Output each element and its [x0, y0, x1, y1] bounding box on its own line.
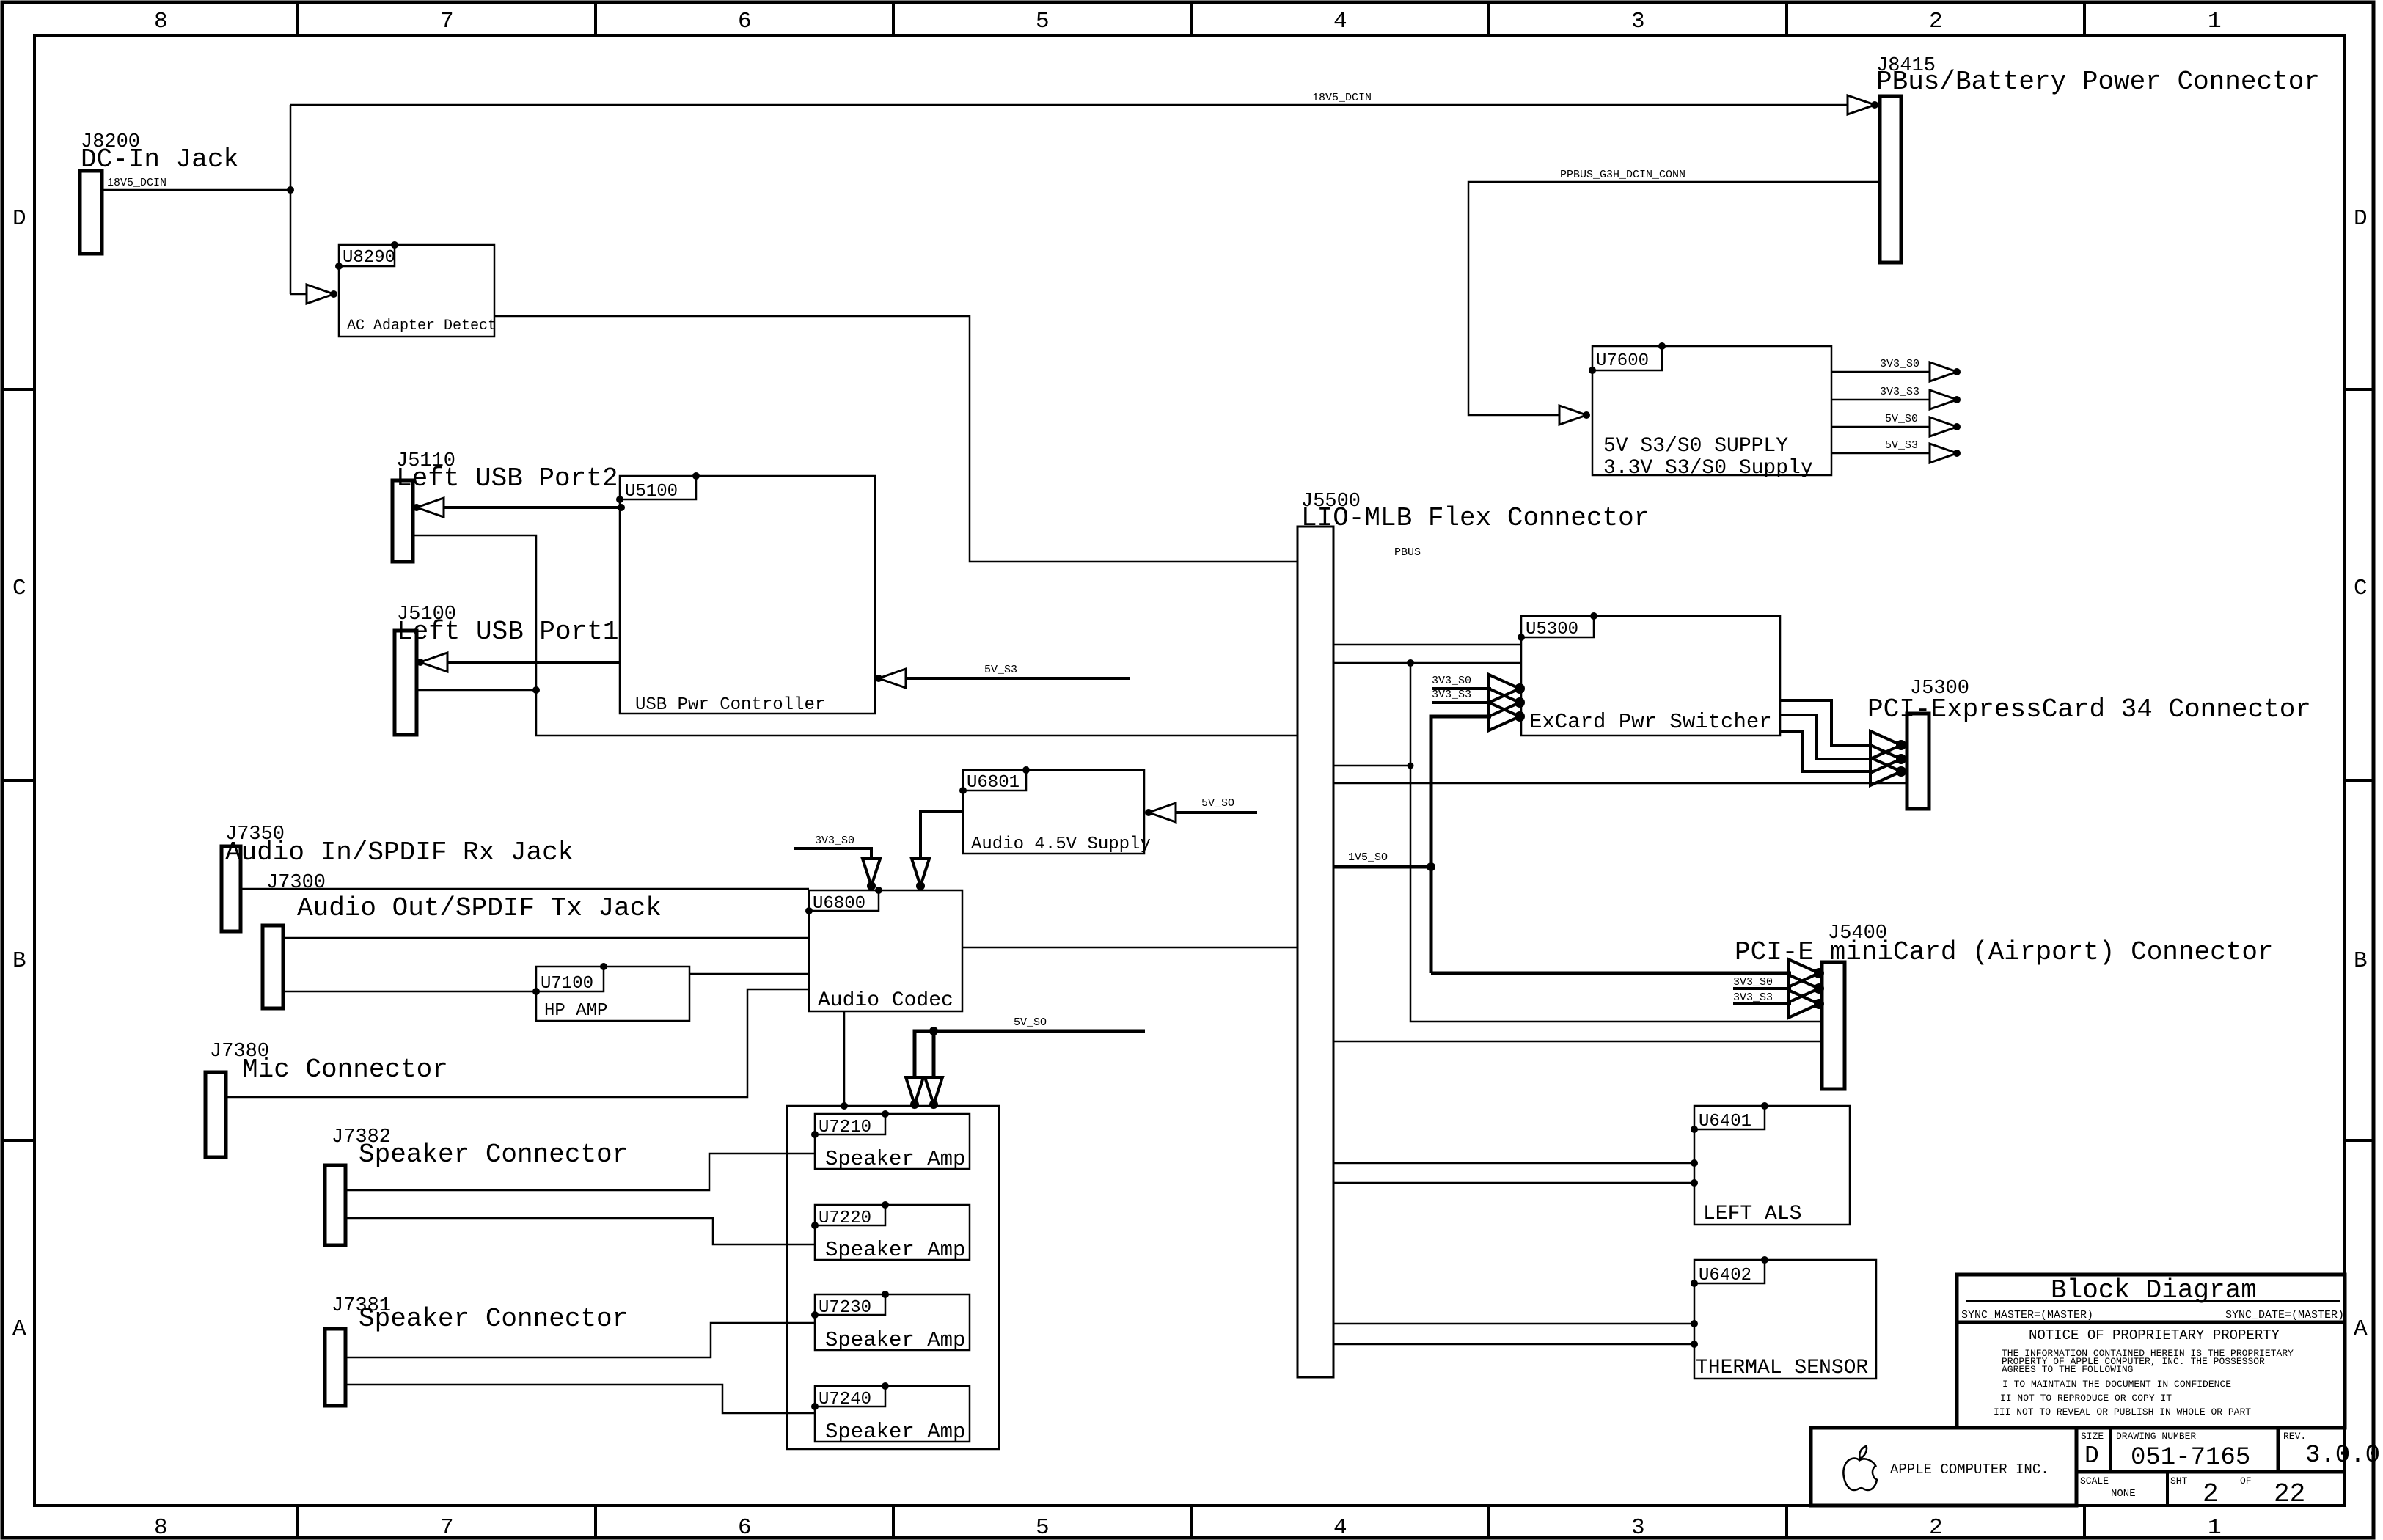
svg-text:2: 2	[2203, 1479, 2219, 1509]
svg-text:AC Adapter Detect: AC Adapter Detect	[347, 318, 497, 334]
connector J7350 Audio In/SPDIF Rx Jack	[222, 824, 574, 931]
svg-text:7: 7	[440, 1515, 454, 1540]
svg-text:4: 4	[1333, 1515, 1347, 1540]
svg-text:LIO-MLB Flex Connector: LIO-MLB Flex Connector	[1301, 503, 1650, 533]
wire 18V5_DCIN long run to J8415	[290, 104, 1847, 106]
svg-text:PBus/Battery Power Connector: PBus/Battery Power Connector	[1876, 67, 2320, 97]
arrow 3V3_S3 into J5400	[1788, 990, 1819, 1018]
svg-text:22: 22	[2274, 1479, 2305, 1509]
svg-text:3V3_S3: 3V3_S3	[1733, 991, 1773, 1004]
arrow into J5100	[420, 653, 447, 672]
svg-text:Speaker Amp: Speaker Amp	[825, 1147, 965, 1171]
svg-text:APPLE COMPUTER INC.: APPLE COMPUTER INC.	[1890, 1462, 2049, 1478]
svg-text:I TO MAINTAIN THE DOCUMENT IN: I TO MAINTAIN THE DOCUMENT IN CONFIDENCE	[2002, 1379, 2231, 1390]
connector J7381 Speaker Connector	[325, 1295, 628, 1406]
arrow out 5V_S3	[1930, 444, 1957, 463]
wire J7382 to U7220	[345, 1218, 815, 1244]
wire J5500 to U5300 pin2	[1333, 662, 1521, 664]
svg-text:U5300: U5300	[1526, 620, 1578, 639]
svg-text:Speaker Connector: Speaker Connector	[359, 1140, 628, 1170]
wire J7381 to U7240	[345, 1385, 815, 1413]
svg-text:051-7165: 051-7165	[2131, 1444, 2250, 1472]
connector J5300 PCI-ExpressCard 34 Connector	[1867, 678, 2311, 809]
svg-text:Speaker Amp: Speaker Amp	[825, 1328, 965, 1352]
svg-text:2: 2	[1929, 9, 1943, 34]
svg-text:NONE: NONE	[2111, 1488, 2136, 1500]
svg-text:DC-In Jack: DC-In Jack	[81, 144, 239, 175]
svg-text:Audio Codec: Audio Codec	[818, 989, 953, 1012]
wire 18V5_DCIN from J8200 to junction	[102, 105, 290, 294]
wire 3V3_S0 into U6800	[794, 848, 871, 859]
block U8290 AC Adapter Detect	[335, 241, 497, 337]
wire J5110 data to J5500	[413, 535, 1297, 736]
svg-text:U5100: U5100	[625, 482, 678, 502]
svg-text:Left USB Port1: Left USB Port1	[397, 617, 618, 647]
svg-text:HP AMP: HP AMP	[544, 1001, 607, 1021]
wire U7600 out 3V3_S0	[1831, 371, 1930, 373]
wire 1V5_S0 to J5400	[1431, 972, 1791, 975]
arrow 1V5_S0 into J5400	[1788, 959, 1819, 987]
svg-text:SIZE: SIZE	[2081, 1431, 2104, 1442]
wire USB power U5100 to J5110	[444, 506, 620, 509]
block U7600 5V/3.3V supply	[1589, 342, 1831, 480]
svg-text:5V_S3: 5V_S3	[984, 664, 1017, 676]
block U7210 Speaker Amp	[811, 1110, 970, 1171]
wire J5500 to U6402 pin1	[1333, 1323, 1694, 1325]
svg-text:J7300: J7300	[266, 872, 326, 894]
svg-text:18V5_DCIN: 18V5_DCIN	[107, 177, 166, 189]
svg-text:U7600: U7600	[1596, 351, 1649, 371]
svg-text:2: 2	[1929, 1515, 1943, 1540]
connector J5500 LIO-MLB Flex Connector	[1297, 491, 1650, 1377]
svg-text:NOTICE OF PROPRIETARY PROPERTY: NOTICE OF PROPRIETARY PROPERTY	[2029, 1327, 2280, 1343]
block U6801 Audio 4.5V Supply	[959, 766, 1151, 854]
svg-text:3V3_S3: 3V3_S3	[1880, 386, 1919, 398]
arrow U5300 out3 into J5300	[1870, 758, 1901, 785]
svg-text:3V3_S0: 3V3_S0	[1733, 976, 1773, 989]
svg-text:PCI-ExpressCard 34 Connector: PCI-ExpressCard 34 Connector	[1867, 694, 2311, 725]
wire U7600 out 5V_S3	[1831, 452, 1930, 455]
svg-text:1: 1	[2208, 1515, 2222, 1540]
svg-text:Speaker Amp: Speaker Amp	[825, 1238, 965, 1262]
junction PCIE branch	[1407, 659, 1414, 667]
svg-text:3V3_S3: 3V3_S3	[1432, 689, 1471, 701]
wire U7100 to U6800	[689, 973, 809, 975]
svg-text:4: 4	[1333, 9, 1347, 34]
connector J5400 PCI-E miniCard (Airport) Connector	[1735, 923, 2274, 1089]
svg-text:U7210: U7210	[819, 1118, 871, 1137]
svg-text:C: C	[2354, 576, 2368, 601]
svg-text:Audio In/SPDIF Rx Jack: Audio In/SPDIF Rx Jack	[225, 837, 574, 868]
svg-text:LEFT ALS: LEFT ALS	[1703, 1203, 1801, 1225]
svg-text:Speaker Connector: Speaker Connector	[359, 1304, 628, 1334]
arrow 1V5_S0 into U5300	[1489, 703, 1520, 730]
svg-text:3.3V S3/S0 Supply: 3.3V S3/S0 Supply	[1603, 457, 1813, 480]
svg-text:A: A	[2354, 1316, 2368, 1342]
block U5100 USB Pwr Controller	[616, 472, 875, 715]
arrow out 3V3_S3	[1930, 390, 1957, 409]
wire J7300 to U6800	[283, 937, 809, 939]
block U7100 HP AMP	[532, 963, 689, 1021]
svg-text:PPBUS_G3H_DCIN_CONN: PPBUS_G3H_DCIN_CONN	[1560, 169, 1685, 181]
arrow into U7600	[1559, 406, 1586, 425]
arrow 3V3_S0 down into U6800	[863, 859, 880, 886]
svg-text:1: 1	[2208, 9, 2222, 34]
block U7240 Speaker Amp	[811, 1382, 970, 1444]
wire U6800 to J5500	[962, 947, 1297, 949]
svg-text:III NOT TO REVEAL OR PUBLISH I: III NOT TO REVEAL OR PUBLISH IN WHOLE OR…	[1994, 1407, 2251, 1418]
block U5300 ExCard Pwr Switcher	[1518, 612, 1780, 736]
svg-text:8: 8	[154, 1515, 168, 1540]
svg-text:DRAWING NUMBER: DRAWING NUMBER	[2116, 1431, 2196, 1442]
wire J5500 to J5400 pin	[1333, 1041, 1822, 1043]
arrow out 3V3_S0	[1930, 362, 1957, 381]
svg-text:U7230: U7230	[819, 1298, 871, 1318]
wire J5500 to U6401 pin2	[1333, 1182, 1694, 1184]
svg-text:5V_SO: 5V_SO	[1201, 797, 1234, 810]
wire 5V_S0 amp rail	[915, 1031, 1145, 1079]
svg-text:SCALE: SCALE	[2080, 1475, 2109, 1486]
wire U5300 out2 staircase	[1780, 715, 1873, 759]
wire J7381 to U7230	[345, 1323, 815, 1357]
svg-text:THERMAL SENSOR: THERMAL SENSOR	[1696, 1357, 1868, 1379]
svg-text:AGREES TO THE FOLLOWING: AGREES TO THE FOLLOWING	[2002, 1364, 2133, 1375]
arrow 3V3_S0 into U5300	[1489, 675, 1520, 703]
svg-text:6: 6	[738, 1515, 752, 1540]
svg-text:D: D	[12, 206, 26, 232]
svg-text:SYNC_DATE=(MASTER): SYNC_DATE=(MASTER)	[2225, 1309, 2344, 1321]
connector J5100 Left USB Port1	[395, 604, 618, 735]
svg-text:18V5_DCIN: 18V5_DCIN	[1312, 92, 1372, 104]
svg-text:5: 5	[1036, 1515, 1050, 1540]
block U6401 LEFT ALS	[1691, 1102, 1850, 1225]
svg-text:U6800: U6800	[813, 894, 865, 914]
svg-text:3V3_S0: 3V3_S0	[1432, 675, 1471, 687]
connector J8200 DC-In Jack	[80, 131, 239, 254]
svg-text:U6801: U6801	[967, 773, 1020, 793]
svg-text:Block Diagram: Block Diagram	[2051, 1275, 2257, 1305]
wire J5500 to J5300	[1333, 782, 1907, 785]
svg-text:5V_S3: 5V_S3	[1885, 439, 1918, 452]
wire J7350 to U6800	[241, 888, 809, 890]
svg-text:5V_S0: 5V_S0	[1885, 413, 1918, 425]
wire J5500 to U6401 pin1	[1333, 1162, 1694, 1165]
svg-text:ExCard Pwr Switcher: ExCard Pwr Switcher	[1529, 710, 1772, 734]
svg-text:B: B	[12, 948, 26, 974]
wire U7600 out 5V_S0	[1831, 426, 1930, 428]
svg-text:Speaker Amp: Speaker Amp	[825, 1420, 965, 1444]
wire U5300 out1 staircase	[1780, 700, 1873, 745]
block U6800 Audio Codec	[805, 887, 962, 1012]
wire J5500 to U6402 pin2	[1333, 1343, 1694, 1346]
wire 3V3_S3 into J5400	[1733, 1002, 1791, 1005]
svg-text:PBUS: PBUS	[1394, 546, 1421, 559]
svg-text:7: 7	[440, 9, 454, 34]
arrow out 5V_S0	[1930, 417, 1957, 436]
wire stub into U8290	[290, 293, 306, 296]
arrow 3V3_S0 into J5400	[1788, 975, 1819, 1002]
wire 3V3_S3 into U5300	[1432, 701, 1491, 704]
svg-text:D: D	[2354, 206, 2368, 232]
wire USB power U5100 to J5100	[447, 661, 620, 664]
svg-text:5V_SO: 5V_SO	[1014, 1016, 1047, 1029]
svg-text:D: D	[2084, 1442, 2099, 1470]
wire J7300 to U7100	[283, 991, 536, 993]
wire PCIE vertical branch to J5400	[1410, 663, 1822, 1022]
svg-text:B: B	[2354, 948, 2368, 974]
arrow U6801 down into U6800	[912, 859, 929, 886]
wire U6800 down to amp group	[843, 1011, 846, 1106]
svg-text:6: 6	[738, 9, 752, 34]
arrow 5V_S0 into U6801	[1149, 803, 1176, 822]
wire 3V3_S0 into J5400	[1733, 987, 1791, 990]
connector J7380 Mic Connector	[205, 1041, 448, 1157]
arrow 5V_S0 down into amp group 2	[925, 1077, 942, 1104]
group box speaker amps	[787, 1106, 999, 1449]
block U7230 Speaker Amp	[811, 1291, 970, 1352]
junction 18V5_DCIN	[287, 186, 294, 194]
svg-text:Left USB Port2: Left USB Port2	[396, 463, 618, 494]
svg-text:U7240: U7240	[819, 1390, 871, 1409]
svg-text:U7100: U7100	[541, 974, 593, 994]
svg-text:Audio 4.5V Supply: Audio 4.5V Supply	[971, 835, 1151, 854]
wire 1V5_S0 from J5500	[1333, 865, 1431, 869]
connector J5110 Left USB Port2	[392, 450, 618, 562]
svg-text:U8290: U8290	[343, 248, 395, 268]
svg-text:3: 3	[1631, 1515, 1645, 1540]
arrow 3V3_S3 into U5300	[1489, 689, 1520, 716]
svg-text:SHT: SHT	[2170, 1475, 2188, 1486]
arrow into J8415 pin	[1848, 95, 1875, 114]
connector J7300 Audio Out/SPDIF Tx Jack	[263, 872, 662, 1008]
wire PPBUS_G3H_DCIN_CONN from J8415 to U7600	[1468, 182, 1880, 415]
svg-text:C: C	[12, 576, 26, 601]
svg-text:A: A	[12, 1316, 26, 1342]
svg-text:Mic Connector: Mic Connector	[242, 1055, 448, 1085]
svg-text:REV.: REV.	[2283, 1431, 2306, 1442]
wire J5500 stub to PCIE branch	[1333, 765, 1410, 767]
svg-text:3V3_S0: 3V3_S0	[815, 835, 854, 847]
wire U5300 out3 staircase	[1780, 732, 1873, 771]
wire J7382 to U7210	[345, 1154, 815, 1190]
wire J5100 data	[417, 689, 536, 692]
connector J7382 Speaker Connector	[325, 1126, 628, 1245]
svg-text:II NOT TO REPRODUCE OR COPY IT: II NOT TO REPRODUCE OR COPY IT	[2000, 1393, 2172, 1404]
wire J7380 to U6800	[226, 989, 809, 1097]
arrow 5V_S3 into U5100	[879, 669, 906, 688]
wire U8290 output to J5500	[494, 316, 1297, 562]
junction 1V5_S0	[1427, 862, 1435, 871]
svg-text:3V3_S0: 3V3_S0	[1880, 358, 1919, 370]
arrow U5300 out2 into J5300	[1870, 745, 1901, 773]
arrow U5300 out1 into J5300	[1870, 731, 1901, 759]
wire U6801 output hook to U6800	[920, 811, 963, 859]
svg-text:3.0.0: 3.0.0	[2305, 1442, 2380, 1470]
svg-text:PCI-E miniCard (Airport) Conne: PCI-E miniCard (Airport) Connector	[1735, 937, 2274, 967]
arrow into J5110	[417, 498, 444, 517]
wire 3V3_S0 into U5300	[1432, 687, 1491, 690]
svg-text:U6402: U6402	[1699, 1266, 1751, 1286]
svg-text:5V S3/S0 SUPPLY: 5V S3/S0 SUPPLY	[1603, 435, 1788, 458]
arrow into U8290	[307, 285, 334, 304]
wire J5500 to U5300 pin1	[1333, 644, 1521, 646]
wire 5V_S0	[1176, 811, 1257, 814]
svg-text:Audio Out/SPDIF Tx Jack: Audio Out/SPDIF Tx Jack	[297, 893, 662, 923]
wire U7600 out 3V3_S3	[1831, 399, 1930, 401]
svg-text:OF: OF	[2240, 1475, 2252, 1486]
svg-text:U7220: U7220	[819, 1209, 871, 1228]
svg-text:5: 5	[1036, 9, 1050, 34]
wire 5V_S3	[906, 677, 1130, 680]
block U7220 Speaker Amp	[811, 1201, 970, 1262]
junction USB data	[532, 686, 540, 694]
block U6402 THERMAL SENSOR	[1691, 1256, 1876, 1379]
apple logo	[1843, 1446, 1877, 1490]
connector J8415 PBus/Battery Power Connector	[1876, 55, 2320, 263]
svg-text:3: 3	[1631, 9, 1645, 34]
svg-text:8: 8	[154, 9, 168, 34]
title block	[1811, 1275, 2345, 1506]
svg-text:USB Pwr Controller: USB Pwr Controller	[635, 695, 825, 715]
arrow 5V_S0 down into amp group 1	[906, 1077, 923, 1104]
svg-text:SYNC_MASTER=(MASTER): SYNC_MASTER=(MASTER)	[1961, 1309, 2093, 1321]
svg-text:U6401: U6401	[1699, 1112, 1751, 1132]
wire 1V5_S0 up into U5300	[1431, 716, 1491, 973]
svg-text:1V5_SO: 1V5_SO	[1348, 851, 1388, 864]
